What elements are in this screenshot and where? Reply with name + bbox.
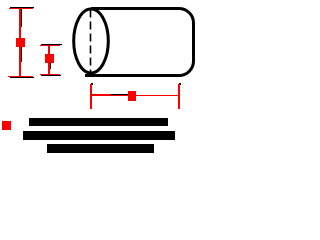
dimension D2 stem lower black edge (50, 63, 51, 69)
dimension D1 stem upper black edge (21, 9, 22, 27)
dimension D1 stem lower black edge (21, 47, 22, 62)
dimension D1 top cap (red) (9, 8, 33, 9)
dimension D1 stem (red) (19, 9, 21, 76)
dimension D2 top cap (black) (41, 44, 62, 45)
dimension D1 bottom cap (black) (10, 77, 34, 78)
cylinder end ellipse (74, 9, 109, 73)
dimension D3 left cap black tip (91, 83, 93, 85)
dimension D3 handle square (128, 91, 136, 101)
dimension D3 line black segment (110, 94, 128, 95)
dimension D2 stem (red) (48, 46, 50, 74)
dimension D2 bottom cap (red) (40, 74, 60, 75)
stray red handle square bottom-left (2, 121, 11, 130)
dimension D1 top cap (black) (10, 7, 34, 8)
redacted text bar 2 (23, 131, 175, 140)
dimension D3 right cap (red) (178, 84, 180, 109)
dimension D2 top cap (red) (40, 45, 60, 46)
dimension D2 handle square (45, 54, 54, 63)
dimension D3 right cap black tip (179, 83, 181, 85)
cylinder body outline (85, 9, 194, 76)
dimension D3 line left red segment (91, 94, 110, 96)
cylinder centerline (dashed) (90, 10, 92, 74)
redacted text bar 3 (47, 144, 154, 153)
dimension D3 line right red segment (110, 95, 179, 96)
dimension D1 bottom cap (red) (8, 76, 33, 77)
dimension D2 bottom cap (black) (41, 75, 61, 76)
dimension D3 left cap (red) (90, 84, 92, 109)
dimension D1 handle square (16, 38, 25, 47)
redacted text bar 1 (29, 118, 168, 126)
